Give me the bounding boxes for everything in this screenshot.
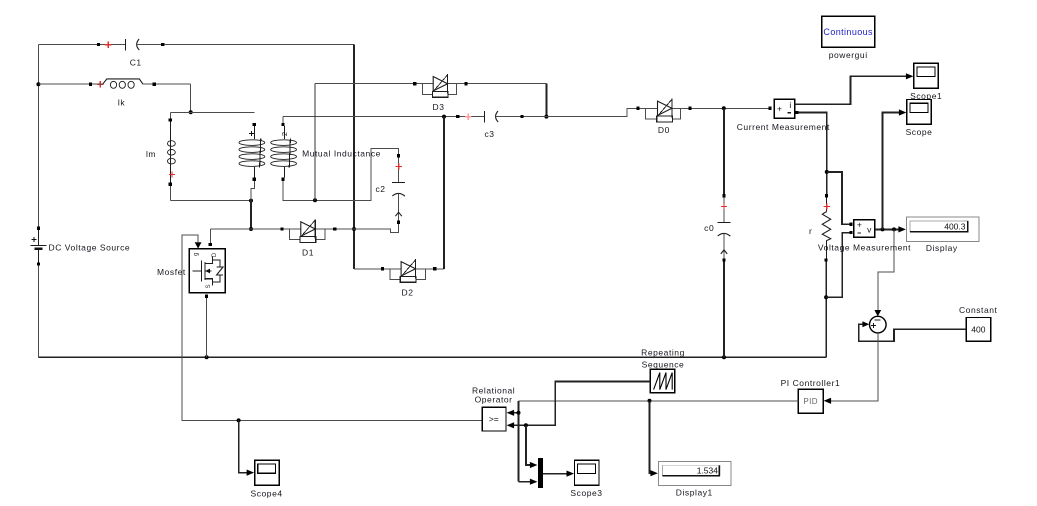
wire: vertical x354 from C1 down to D2 anode [352,45,381,269]
svg-text:PI Controller1: PI Controller1 [781,378,841,388]
wire: mosfet source down to bottom rail [206,298,208,358]
svg-text:D: D [212,252,218,257]
svg-text:2: 2 [280,132,289,136]
svg-text:c0: c0 [704,223,714,233]
svg-text:Display1: Display1 [676,488,713,498]
svg-text:D0: D0 [658,125,670,135]
svg-text:Display: Display [926,243,958,253]
svg-text:Sequence: Sequence [642,359,685,369]
svg-text:v: v [867,224,872,234]
scope Scope [906,100,933,138]
wire: D3 cathode over to c3 right node [468,84,549,119]
inductor lk [89,79,156,108]
controller: PI Controller1 (PID) [781,378,841,414]
resistor r [809,194,831,262]
wire: PID signal branch to Display1 [650,401,658,477]
svg-text:Scope3: Scope3 [570,488,602,498]
wire: gate drive wire from Relational Operator output [182,235,482,422]
wire: D3 anode down to winding2 bottom node [315,84,413,201]
svg-text:Mosfet: Mosfet [157,267,186,277]
svg-text:Scope: Scope [906,127,933,137]
wire: mosfet drain up to D1 anode node [210,229,280,243]
wire: sum output down to PI Controller input [824,333,878,404]
svg-text:powergui: powergui [829,50,868,60]
svg-text:DC Voltage Source: DC Voltage Source [49,243,131,253]
svg-text:Voltage Measurement: Voltage Measurement [818,242,911,252]
diode D2 [381,259,437,297]
wire: c2 bottom to D1 output node [354,224,399,233]
capacitor c0 [704,194,730,261]
display Display (400.3) [906,217,978,253]
svg-text:1.534: 1.534 [697,466,719,476]
wire: left rail to inductor lk [38,83,91,85]
svg-text:+: + [857,220,862,230]
wire: PID signal into Relational Operator top input [507,401,521,482]
svg-text:g: g [194,253,200,256]
wire: top loop to capacitor C1 [38,44,99,46]
svg-text:r: r [809,226,812,236]
svg-text:C1: C1 [130,58,142,68]
diode D1 [280,219,336,257]
scope Scope3 [570,460,602,498]
wire: DC source negative down to bottom rail [37,266,39,358]
svg-text:c3: c3 [484,129,494,139]
wire: sawtooth branch to mux top input [526,425,538,468]
svg-text:D2: D2 [402,287,414,297]
wire: PID output to comparator [519,399,799,403]
svg-text:400: 400 [971,324,985,334]
diode D0 [637,99,692,136]
svg-text:i: i [789,100,791,110]
svg-text:S: S [206,284,212,288]
wire: voltage signal branch to Scope [883,109,907,229]
svg-text:Mutual Inductance: Mutual Inductance [302,148,381,158]
sum block (error junction) [870,316,887,333]
svg-text:c2: c2 [375,184,385,194]
capacitor c2 [375,154,405,224]
svg-text:lm: lm [146,149,156,159]
wire: gate signal branch to Scope4 [239,420,255,475]
wire: Voltage Measurement minus return [826,233,849,298]
powergui block [822,16,875,60]
scope Scope4 [251,460,283,498]
wire: lm top node horizontal [170,111,254,113]
svg-text:lk: lk [118,98,125,108]
wire: winding2 top up to secondary top line [283,115,456,123]
svg-text:PID: PID [803,397,818,406]
source: DC Voltage Source [30,227,130,266]
source: Repeating Sequence block [641,347,685,393]
meter: Current Measurement block [737,99,830,132]
capacitor c3 [456,111,524,139]
display Display1 (1.534) [658,462,731,498]
wire: D1 cathode to node [336,228,354,230]
wire: current signal to Scope1 [795,73,914,104]
wire: D0 cathode to Current Measurement input [692,106,769,110]
wire: bottom return rail [38,355,826,359]
wire: Constant to sum plus input [859,321,967,341]
wire: sawtooth to Relational Operator bottom input [507,381,651,428]
wire: winding2 bottom to c2 top [283,149,399,203]
comparator: Relational Operator block [472,385,515,431]
wire: D2 cathode up to c3 line [436,117,444,269]
wire: PID signal branch to mux bottom input [519,479,538,485]
mux block [538,458,543,488]
svg-text:Scope4: Scope4 [251,489,283,499]
constant block Constant (400) [959,305,998,341]
wire: D0 output down to c0 [723,108,725,194]
wire: voltage feedback to sum junction [874,229,894,316]
svg-text:Current Measurement: Current Measurement [737,122,830,132]
wire: Current Measurement minus to load top [799,113,829,195]
wire: load top to Voltage Measurement plus [827,172,850,224]
svg-text:+: + [777,104,782,114]
svg-text:>=: >= [489,414,499,424]
wire: lk output down to primary top node [156,84,193,114]
wire: c3 right to diode D0 [524,108,637,116]
transistor: Mosfet block [157,243,225,298]
wire: r bottom to rail [824,262,828,358]
wire: voltage signal to Display [875,226,906,232]
transformer: Mutual Inductance [239,123,381,181]
inductor lm [146,112,175,186]
diode D3 [413,74,467,112]
wire: c0 bottom to rail [723,262,725,358]
meter: Voltage Measurement block [818,220,911,253]
capacitor C1 [97,39,164,68]
wire: left rail from C1 down to DC Voltage Source [36,45,40,227]
svg-text:Repeating: Repeating [641,347,685,357]
scope Scope1 [910,63,942,101]
svg-text:400.3: 400.3 [944,222,966,232]
svg-text:Constant: Constant [959,305,998,315]
svg-text:Continuous: Continuous [823,27,873,37]
wire: lm bottom to winding1 bottom junction [170,186,253,203]
wire: C1 right to drop at x354 [164,44,354,46]
svg-text:D3: D3 [433,102,445,112]
wire: winding1 bottom to drain node [249,181,254,231]
wire: mux output to Scope3 [543,471,574,477]
svg-text:Operator: Operator [475,395,513,405]
svg-text:D1: D1 [302,247,314,257]
